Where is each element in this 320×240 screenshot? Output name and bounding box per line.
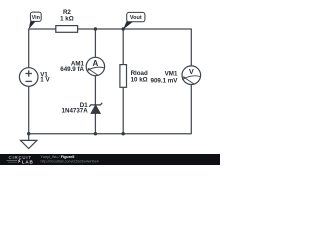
- svg-text:Vin: Vin: [32, 15, 40, 21]
- svg-text:10 kΩ: 10 kΩ: [131, 77, 148, 84]
- voltmeter VM1: [151, 66, 201, 85]
- zener diode D1: [62, 102, 103, 115]
- node Vin flag: [29, 12, 42, 29]
- wire top-mid segment: [78, 28, 124, 30]
- node Vout flag: [123, 12, 145, 29]
- svg-text:1 kΩ: 1 kΩ: [60, 16, 74, 23]
- svg-text:A: A: [93, 59, 99, 68]
- resistor R2: [56, 9, 78, 32]
- svg-text:1N4737A: 1N4737A: [62, 108, 89, 115]
- junction bottom at rload branch: [122, 132, 125, 135]
- footer CircuitLab logo: [7, 155, 34, 164]
- junction top at Vout: [122, 27, 125, 30]
- svg-text:V: V: [189, 67, 194, 76]
- footer title text: [41, 155, 99, 163]
- wire right upper: [190, 29, 192, 67]
- wire top-right segment: [123, 28, 191, 30]
- svg-text:http://circuitlab.com/c/22e5w4: http://circuitlab.com/c/22e5w4wrtbe4: [41, 159, 99, 163]
- voltage source V1: [19, 68, 50, 87]
- wire rload top: [122, 29, 124, 65]
- wire left upper: [28, 29, 30, 68]
- wire ammeter top: [94, 29, 96, 57]
- svg-text:649.9 fA: 649.9 fA: [60, 66, 84, 73]
- ammeter AM1: [60, 57, 104, 75]
- wire rload bottom: [122, 87, 124, 133]
- svg-text:LAB: LAB: [22, 159, 34, 164]
- svg-text:909.1 mV: 909.1 mV: [151, 77, 179, 84]
- svg-text:Yunyi_Wu / Figure5: Yunyi_Wu / Figure5: [41, 155, 75, 159]
- ground: [21, 134, 37, 149]
- junction bottom-left: [27, 132, 30, 135]
- wire bottom: [29, 133, 192, 135]
- svg-text:Vout: Vout: [130, 15, 142, 21]
- svg-text:1 V: 1 V: [40, 76, 50, 83]
- footer bar: [0, 154, 220, 165]
- wire left lower: [28, 86, 30, 134]
- wire right lower: [190, 84, 192, 134]
- wire ammeter-to-diode: [94, 76, 96, 105]
- junction top at ammeter branch: [94, 27, 97, 30]
- wire diode bottom: [94, 113, 96, 133]
- resistor Rload: [120, 65, 148, 88]
- junction bottom at diode branch: [94, 132, 97, 135]
- wire top-left segment: [29, 28, 56, 30]
